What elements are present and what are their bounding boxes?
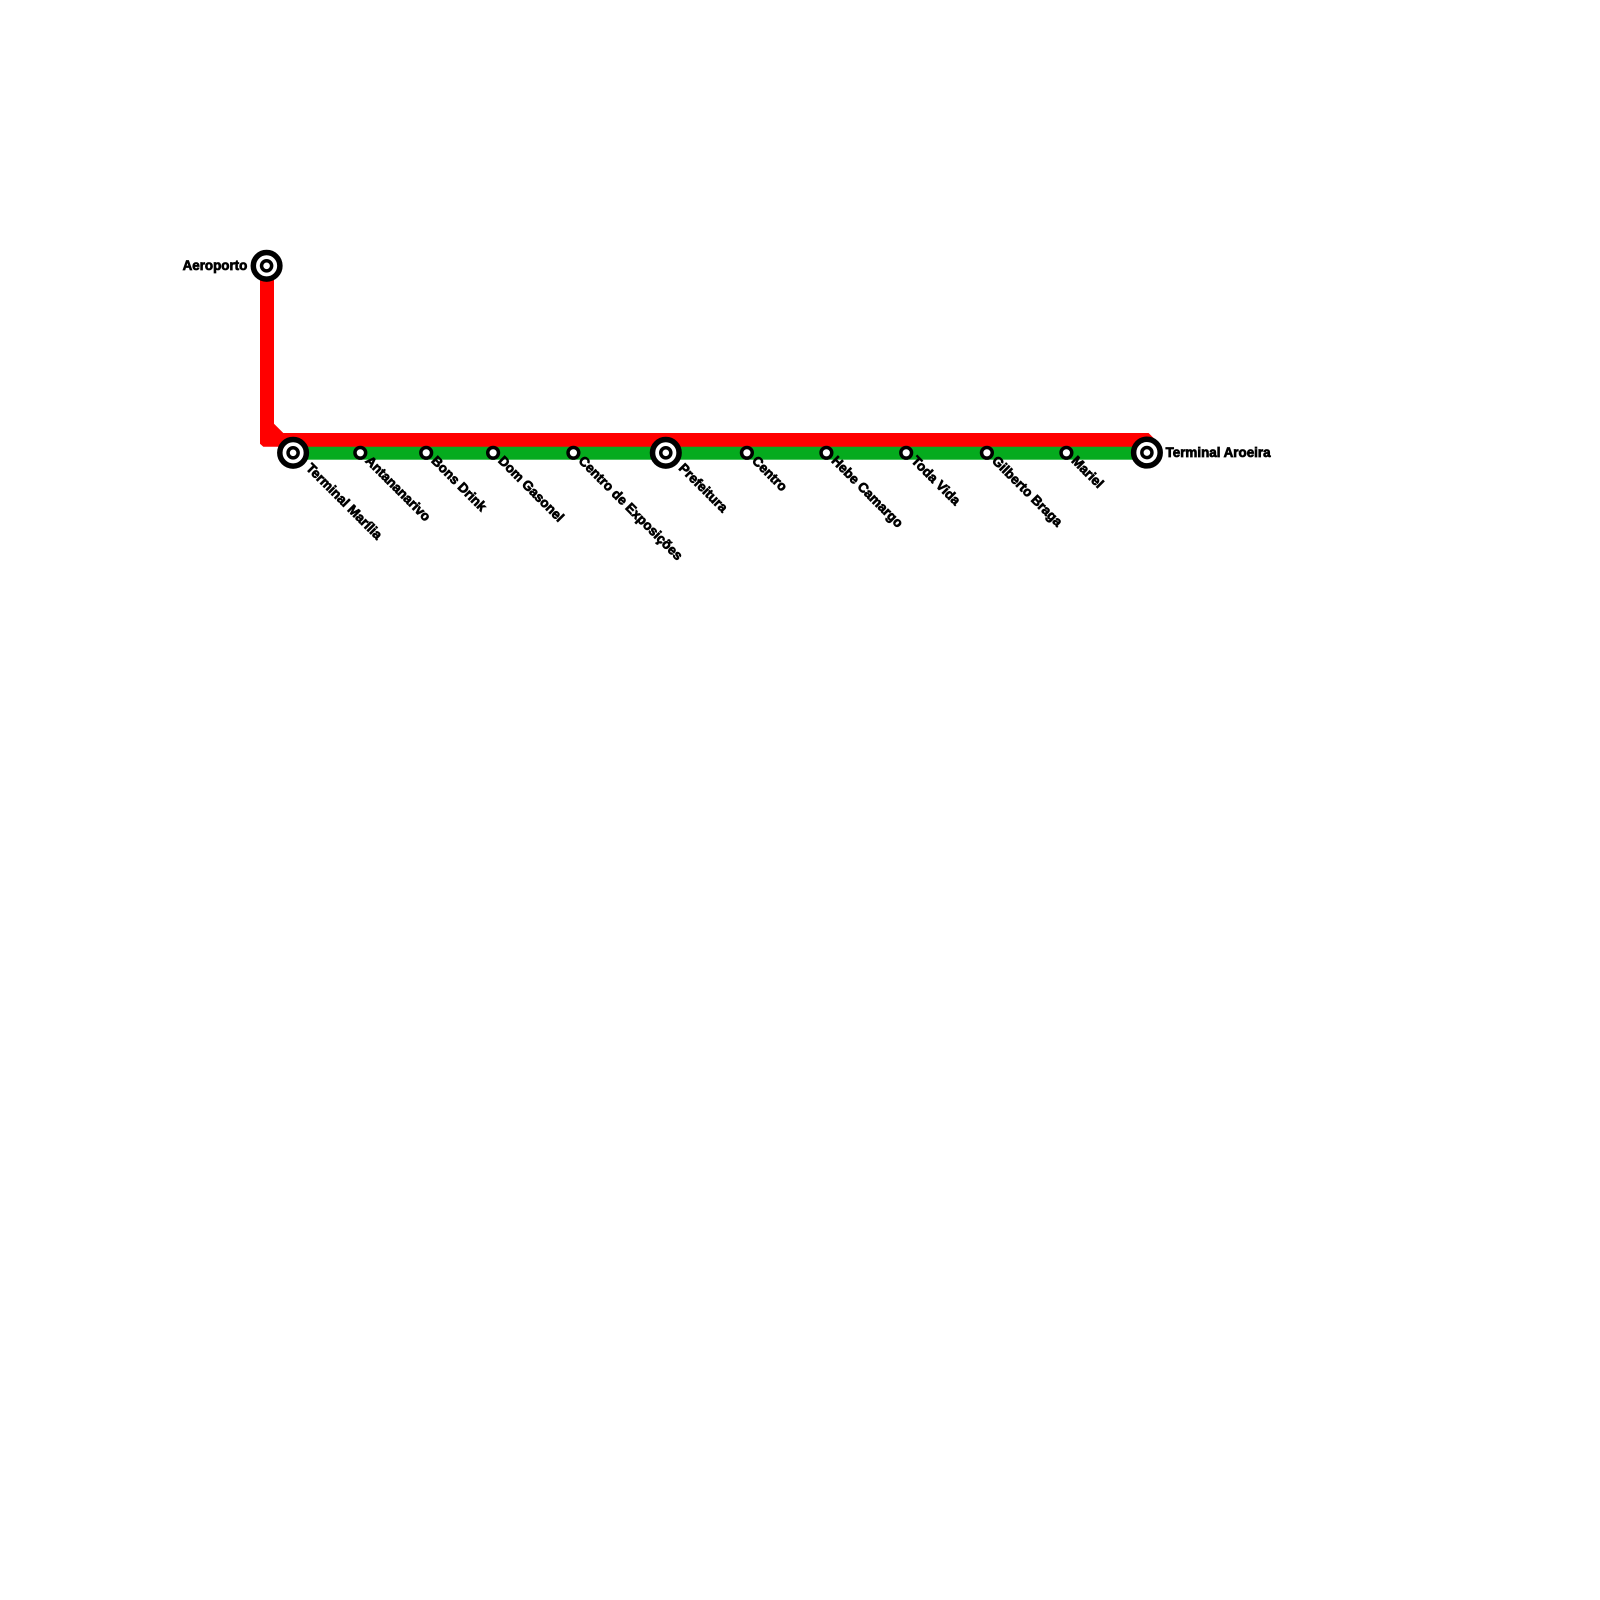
station Gilberto Braga (982, 447, 993, 458)
station Centro de Exposições (568, 447, 579, 458)
station Antananarivo (355, 447, 366, 458)
green line (Terminal Marília – Terminal Aroeira) (293, 446, 1147, 459)
station Aeroporto (terminal bullseye) (253, 252, 280, 279)
station Prefeitura (interchange bullseye) (653, 440, 680, 467)
red line (Aeroporto – Terminal Aroeira) (260, 266, 1156, 447)
station Dom Gasonel (488, 447, 499, 458)
station Hebe Camargo (821, 447, 832, 458)
svg-text:Terminal Aroeira: Terminal Aroeira (1166, 445, 1271, 460)
station Terminal Marília (terminal bullseye) (280, 440, 307, 467)
station Centro (742, 447, 753, 458)
station Mariel (1061, 447, 1072, 458)
station Terminal Aroeira (terminal bullseye) (1134, 439, 1161, 466)
svg-text:Aeroporto: Aeroporto (183, 258, 248, 273)
station Toda Vida (901, 447, 912, 458)
station Bons Drink (421, 447, 432, 458)
